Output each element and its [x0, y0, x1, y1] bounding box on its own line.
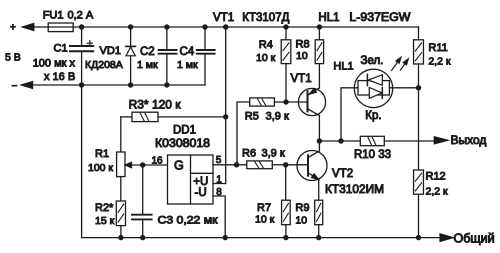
- label K0308018: [155, 138, 210, 150]
- svg-text:R2*: R2*: [95, 202, 114, 214]
- resistor R10: [360, 136, 434, 145]
- resistor R3: [121, 112, 229, 121]
- svg-text:КТ3107Д: КТ3107Д: [242, 12, 289, 24]
- svg-text:10 к: 10 к: [256, 52, 276, 64]
- wire collector node to R10: [319, 138, 360, 143]
- resistor R4: [281, 24, 291, 104]
- label C2: [140, 46, 155, 58]
- capacitor C3: [132, 162, 152, 240]
- svg-text:Зел.: Зел.: [361, 55, 384, 67]
- label R8 value: [296, 50, 308, 62]
- transistor VT1: [286, 88, 326, 144]
- svg-text:C1: C1: [54, 43, 68, 55]
- label R3 120k: [129, 98, 182, 112]
- svg-text:VT1: VT1: [213, 12, 234, 24]
- label C3 value: [158, 215, 218, 227]
- op-amp U1 (IC DD1 K0308018 body): [168, 155, 214, 204]
- svg-text:С3 0,22 мк: С3 0,22 мк: [158, 215, 218, 227]
- label VT1: [291, 73, 312, 85]
- svg-text:R1: R1: [95, 148, 109, 160]
- label R11 value: [428, 55, 451, 67]
- label R2: [95, 202, 114, 214]
- svg-text:HL1: HL1: [318, 12, 339, 24]
- label Kr (red): [365, 110, 381, 122]
- label C4: [180, 46, 195, 58]
- label R7 value: [255, 214, 275, 226]
- svg-text:G: G: [174, 158, 184, 172]
- svg-text:КТ3102ИМ: КТ3102ИМ: [325, 184, 384, 196]
- label FU1 0,2 A: [43, 9, 94, 21]
- svg-text:R7: R7: [257, 202, 271, 214]
- svg-text:R9: R9: [295, 202, 309, 214]
- label VT1 КТ3107Д (top): [213, 12, 290, 24]
- label R12: [426, 171, 446, 183]
- label VT2: [332, 168, 353, 180]
- svg-text:10: 10: [296, 50, 308, 62]
- node output arrow (Vykhod): [434, 133, 486, 147]
- svg-text:х 16 В: х 16 В: [44, 71, 75, 83]
- label R1 value: [88, 162, 113, 174]
- svg-text:DD1: DD1: [173, 124, 196, 136]
- svg-text:3,9 к: 3,9 к: [266, 111, 289, 123]
- diode VD1: [126, 24, 136, 87]
- svg-text:5 В: 5 В: [5, 52, 21, 64]
- resistor R12: [414, 170, 424, 240]
- svg-text:−: −: [12, 81, 18, 92]
- label HL1 L-937EGW (top): [318, 12, 410, 24]
- resistor R6: [247, 161, 289, 169]
- svg-text:Выход: Выход: [451, 133, 487, 147]
- wire HL1 anode to R11: [389, 85, 421, 90]
- svg-text:R6: R6: [242, 148, 256, 160]
- svg-text:К0308018: К0308018: [155, 138, 210, 150]
- resistor R8: [315, 24, 323, 88]
- transistor VT2: [286, 141, 327, 200]
- svg-text:Общий: Общий: [454, 232, 495, 246]
- label KT3102IM: [325, 184, 384, 196]
- wire bottom rail (common): [82, 237, 440, 239]
- resistor R5: [237, 98, 286, 165]
- led HL1 bicolor: [354, 69, 392, 107]
- label R10 33: [354, 149, 391, 161]
- svg-text:10: 10: [295, 214, 307, 226]
- label R7: [257, 202, 271, 214]
- label pin 16: [152, 156, 164, 167]
- svg-text:Кр.: Кр.: [365, 110, 381, 122]
- svg-text:R5: R5: [245, 111, 259, 123]
- label pin 8: [216, 187, 222, 198]
- label R2 value: [95, 215, 115, 227]
- label pin 5: [216, 155, 222, 166]
- svg-text:R4: R4: [259, 39, 273, 51]
- wire plus rail drop to pin1: [223, 24, 228, 183]
- fuse FU1: [48, 23, 73, 32]
- svg-text:КД208А: КД208А: [85, 59, 123, 71]
- svg-text:1 мк: 1 мк: [137, 59, 158, 71]
- label KD208A: [85, 59, 123, 71]
- svg-text:VD1: VD1: [100, 45, 121, 57]
- svg-text:100 к: 100 к: [88, 162, 113, 174]
- label C4 value: [177, 59, 198, 71]
- svg-text:+: +: [10, 23, 16, 34]
- svg-text:R8: R8: [296, 38, 310, 50]
- label R8: [296, 38, 310, 50]
- svg-text:10 к: 10 к: [255, 214, 275, 226]
- label C1 value line1: [33, 58, 76, 70]
- capacitor C4: [197, 24, 215, 85]
- capacitor C2: [159, 24, 177, 87]
- label R5 3,9k: [245, 111, 289, 123]
- resistor R11: [414, 27, 424, 88]
- led light arrows: [392, 57, 409, 70]
- label R11: [428, 42, 447, 54]
- label C1: [54, 43, 68, 55]
- label R1: [95, 148, 109, 160]
- svg-text:FU1: FU1: [43, 9, 64, 21]
- capacitor C1: [70, 24, 93, 237]
- svg-text:R11: R11: [428, 42, 447, 54]
- label C2 value: [137, 59, 158, 71]
- label pin 1: [216, 174, 222, 185]
- wire top rail: [73, 26, 418, 28]
- potentiometer R1: [117, 117, 168, 201]
- node common arrow (Obshchiy): [440, 232, 495, 246]
- label DD1: [173, 124, 196, 136]
- resistor R2: [116, 201, 125, 240]
- svg-text:HL1: HL1: [333, 60, 353, 72]
- label VD1: [100, 45, 121, 57]
- node minus input terminal: [12, 81, 33, 92]
- wire pin1 stub: [213, 183, 226, 185]
- svg-text:2,2 к: 2,2 к: [426, 186, 449, 198]
- svg-text:16: 16: [152, 156, 164, 167]
- label R12 value: [426, 186, 449, 198]
- svg-text:-U: -U: [195, 187, 207, 199]
- svg-text:VT1: VT1: [291, 73, 312, 85]
- svg-text:2,2 к: 2,2 к: [428, 55, 451, 67]
- resistor R7: [282, 165, 291, 241]
- label C1 value line2: [44, 71, 75, 83]
- node + input terminal (5 V plus lead): [10, 23, 48, 34]
- label R4 value: [256, 52, 276, 64]
- label R9 value: [295, 214, 307, 226]
- label 5 V: [5, 52, 21, 64]
- svg-text:R3* 120 к: R3* 120 к: [129, 98, 182, 112]
- wire pin5 to R6: [213, 162, 247, 167]
- svg-text:C4: C4: [180, 46, 195, 58]
- svg-text:R12: R12: [426, 171, 446, 183]
- resistor R9: [315, 200, 323, 240]
- label R9: [295, 202, 309, 214]
- svg-text:15 к: 15 к: [95, 215, 115, 227]
- svg-text:1 мк: 1 мк: [177, 59, 198, 71]
- svg-text:L-937EGW: L-937EGW: [349, 12, 410, 24]
- svg-text:R10 33: R10 33: [354, 149, 391, 161]
- label Zel (green): [361, 55, 384, 67]
- svg-text:100 мк х: 100 мк х: [33, 58, 76, 70]
- label HL1 (near led): [333, 60, 353, 72]
- label R4: [259, 39, 273, 51]
- svg-text:VT2: VT2: [332, 168, 353, 180]
- wire minus bus: [33, 84, 206, 86]
- svg-text:C2: C2: [140, 46, 155, 58]
- wire HL1 cathode to collector node: [341, 88, 358, 141]
- svg-text:0,2 А: 0,2 А: [68, 9, 94, 21]
- svg-text:3,9 к: 3,9 к: [262, 148, 285, 160]
- wire output column: [418, 88, 420, 170]
- label R6 3,9k: [242, 148, 285, 160]
- wire pin8 to ground: [213, 196, 228, 240]
